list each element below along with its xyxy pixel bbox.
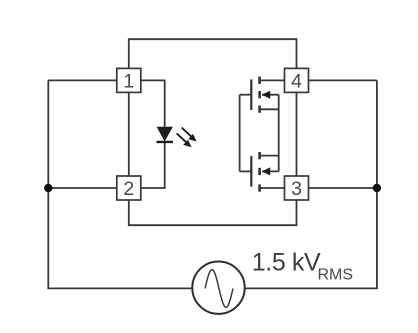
wire pin 1 to left rail bbox=[48, 79, 117, 81]
AC test voltage source V1 circle bbox=[192, 262, 244, 314]
MOSFET Q1 body arrow bbox=[262, 91, 271, 99]
wire LED anode branch from pin 1 bbox=[141, 80, 165, 127]
svg-text:2: 2 bbox=[123, 178, 134, 200]
wire right rail bbox=[245, 80, 377, 288]
MOSFET Q2 body stub bbox=[262, 170, 279, 172]
wire common source tie bbox=[278, 95, 280, 172]
svg-text:3: 3 bbox=[291, 178, 302, 200]
junction dot left rail bbox=[44, 184, 52, 192]
MOSFET Q1 gate bar bbox=[250, 79, 252, 110]
pin 1 terminal box bbox=[117, 68, 141, 92]
LED D1 cathode bar bbox=[157, 141, 174, 143]
junction dot right rail bbox=[373, 184, 381, 192]
wire Q2 gate lead bbox=[240, 170, 252, 172]
svg-text:1.5 kV: 1.5 kV bbox=[252, 249, 321, 277]
MOSFET Q1 source stub bbox=[260, 108, 279, 110]
AC source sine waveform bbox=[205, 270, 233, 308]
MOSFET Q2 gate bar bbox=[250, 156, 252, 187]
pin 4 terminal box bbox=[285, 68, 309, 92]
MOSFET Q1 body stub bbox=[262, 94, 279, 96]
svg-text:4: 4 bbox=[291, 70, 302, 92]
wire pin 3 to right rail bbox=[309, 187, 377, 189]
svg-text:1: 1 bbox=[123, 70, 134, 92]
MOSFET Q1 channel dashes bbox=[258, 77, 261, 113]
pin 2 terminal box bbox=[117, 176, 141, 200]
wire package bottom edge bbox=[129, 200, 297, 225]
wire gate tie bbox=[239, 95, 241, 172]
MOSFET Q2 channel dashes bbox=[258, 152, 261, 192]
LED D1 anode triangle bbox=[157, 127, 172, 140]
svg-text:RMS: RMS bbox=[318, 267, 354, 284]
wire Q1 gate lead bbox=[240, 94, 252, 96]
wire pin 2 to left rail bbox=[48, 187, 117, 189]
wire package right edge between pin 4 and pin 3 bbox=[296, 92, 298, 176]
wire left rail bbox=[48, 80, 192, 288]
wire pin 4 to right rail bbox=[309, 79, 377, 81]
MOSFET Q2 body arrow bbox=[262, 167, 271, 175]
wire package top edge bbox=[129, 39, 297, 68]
MOSFET Q1 drain stub to pin 4 bbox=[260, 79, 285, 81]
MOSFET Q2 source stub bbox=[260, 155, 279, 157]
MOSFET Q2 drain stub to pin 3 bbox=[260, 187, 285, 189]
wire package left edge between pin 1 and pin 2 bbox=[128, 92, 130, 176]
pin 3 terminal box bbox=[285, 176, 309, 200]
wire LED cathode branch to pin 2 bbox=[141, 142, 165, 188]
LED light emission arrow lower bbox=[177, 133, 192, 147]
LED light emission arrow upper bbox=[182, 128, 197, 142]
